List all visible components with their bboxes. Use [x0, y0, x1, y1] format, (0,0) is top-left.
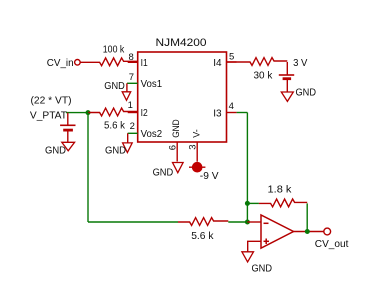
terminal CV_in	[75, 60, 81, 66]
IC U2 NJM4200 box	[138, 52, 227, 142]
junction feedback tap	[245, 201, 250, 206]
pin 4 stub	[227, 112, 237, 114]
svg-text:I3: I3	[213, 108, 222, 119]
ground at battery V1	[45, 142, 75, 156]
svg-text:1.8 k: 1.8 k	[268, 184, 293, 196]
svg-text:GND: GND	[45, 146, 66, 157]
pin 7 stub	[127, 82, 138, 84]
wire non-inverting input stub	[248, 241, 261, 252]
junction output node	[305, 229, 310, 234]
svg-text:V_PTAT: V_PTAT	[30, 110, 68, 122]
resistor R2 5.6k (top)	[88, 108, 138, 116]
svg-text:100 k: 100 k	[103, 44, 125, 56]
ground at pin 6	[153, 163, 184, 179]
svg-text:I1: I1	[141, 58, 148, 69]
svg-text:2: 2	[130, 121, 135, 132]
pin 3 stub	[196, 142, 198, 162]
pin 1 stub	[128, 112, 138, 114]
resistor R3 30k	[227, 58, 288, 66]
ground at battery V2	[281, 88, 316, 102]
op-amp U1	[261, 215, 294, 248]
svg-text:7: 7	[129, 72, 134, 83]
battery V1 (V_PTAT source)	[60, 113, 75, 143]
svg-text:NJM4200: NJM4200	[156, 37, 207, 49]
wire R4 to inverting node	[228, 221, 247, 223]
junction inverting input	[245, 220, 250, 225]
svg-text:3 V: 3 V	[293, 57, 307, 69]
svg-text:5: 5	[229, 52, 234, 63]
svg-text:-9 V: -9 V	[200, 170, 219, 182]
svg-text:I4: I4	[213, 58, 222, 69]
svg-text:3: 3	[187, 144, 198, 149]
wire inverting input stub	[247, 221, 261, 223]
svg-text:CV_out: CV_out	[315, 238, 349, 250]
svg-text:Vos1: Vos1	[141, 79, 163, 90]
svg-text:V-: V-	[192, 129, 203, 138]
resistor R4 5.6k (bottom)	[178, 218, 228, 226]
wire op-amp output	[294, 231, 324, 233]
svg-text:Vos2: Vos2	[141, 129, 163, 140]
svg-text:GND: GND	[153, 168, 174, 179]
node junction A	[86, 110, 91, 115]
pin 5 stub	[227, 61, 237, 63]
svg-text:(22 * VT): (22 * VT)	[31, 94, 72, 106]
ground at op-amp + input	[242, 252, 272, 275]
svg-text:30 k: 30 k	[254, 70, 273, 82]
svg-text:GND: GND	[104, 81, 125, 92]
svg-text:GND: GND	[105, 146, 126, 157]
svg-text:5.6 k: 5.6 k	[191, 230, 214, 242]
svg-text:GND: GND	[296, 88, 317, 99]
svg-text:6: 6	[167, 145, 178, 150]
ground at pin 2	[105, 133, 132, 156]
wire feedback down to output	[306, 203, 308, 231]
wire V_PTAT junction down	[87, 113, 89, 222]
svg-text:5.6 k: 5.6 k	[104, 120, 126, 132]
resistor R5 1.8k feedback	[247, 184, 307, 207]
pin 2 stub	[128, 132, 138, 134]
resistor R1 100k	[80, 58, 138, 66]
wire V_PTAT to junction	[66, 112, 88, 114]
power flag -9V at pin 3	[189, 162, 219, 182]
wire bottom horizontal	[88, 221, 178, 223]
svg-text:I2: I2	[141, 108, 148, 119]
battery V2 3V	[279, 62, 294, 92]
wire vertical bus down	[246, 113, 248, 223]
svg-text:4: 4	[229, 101, 234, 112]
pin 8 stub	[128, 61, 138, 63]
svg-text:1: 1	[128, 100, 133, 111]
wire pin4 to vertical bus	[237, 112, 248, 114]
svg-text:GND: GND	[252, 264, 273, 275]
svg-text:CV_in: CV_in	[47, 57, 74, 69]
ground at pin 7	[104, 81, 130, 101]
terminal CV_out	[324, 228, 331, 235]
pin 6 stub	[176, 142, 178, 162]
svg-text:GND: GND	[171, 119, 182, 138]
